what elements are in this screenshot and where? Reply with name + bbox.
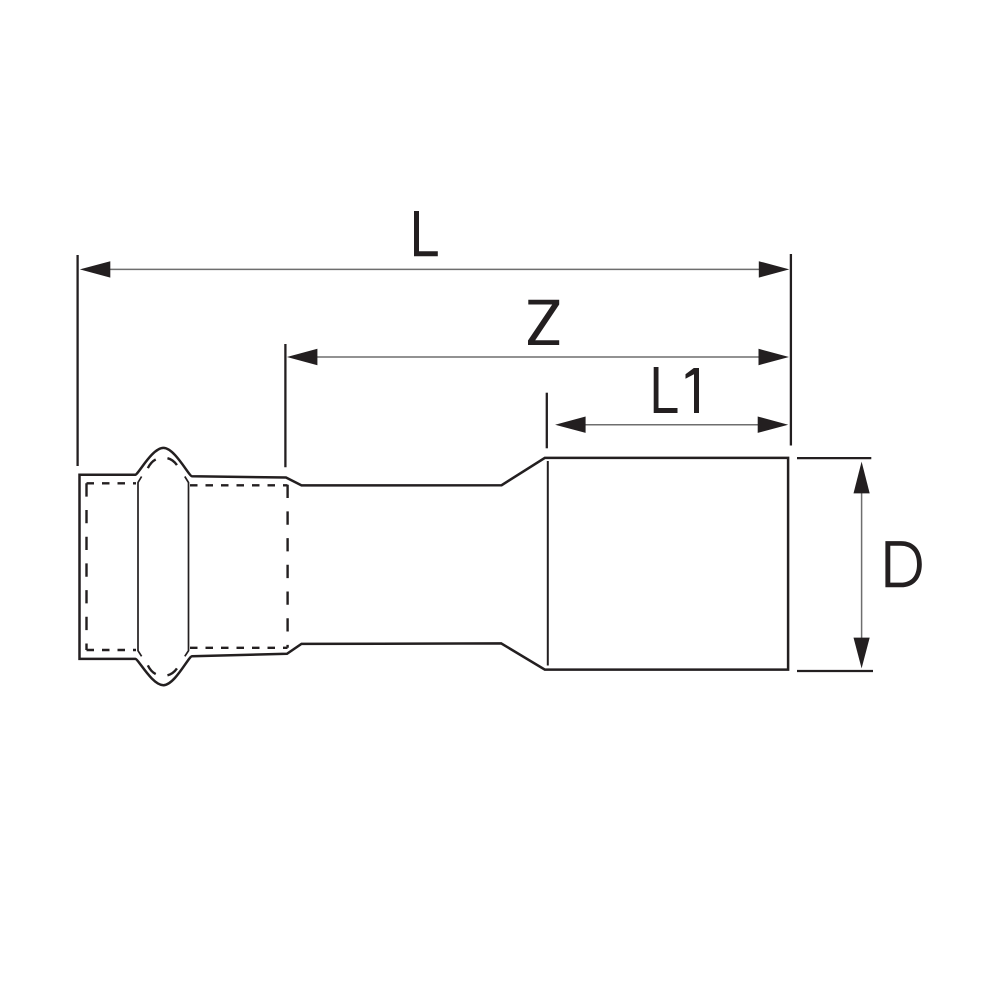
label L1 <box>654 367 678 413</box>
arrow Z left <box>287 349 318 365</box>
ext line Z left <box>284 344 286 467</box>
dashed bore left vertical <box>85 483 87 650</box>
label Z <box>528 300 559 345</box>
dashed insertion depth vertical <box>286 485 288 648</box>
arrow L left <box>80 261 111 277</box>
dim line L1 <box>580 424 762 426</box>
arrow D top <box>854 462 870 494</box>
dashed bore bottom-left <box>87 649 137 651</box>
dim line L <box>105 268 762 270</box>
ext line L1 left <box>546 393 548 449</box>
bead flank left <box>138 477 142 657</box>
arrow Z right <box>759 349 790 365</box>
dashed bore top-left <box>87 482 137 484</box>
arrow L right <box>759 261 790 277</box>
dimension lines <box>105 269 862 640</box>
dim line Z <box>312 356 762 358</box>
arrowheads <box>80 261 870 668</box>
dashed o-ring arc bottom <box>147 664 180 676</box>
dashed bore top-right <box>190 484 288 486</box>
label D <box>885 541 921 587</box>
fitting outer silhouette <box>80 448 789 685</box>
dashed o-ring arc top <box>147 458 180 470</box>
ext line D top <box>797 457 871 459</box>
bead flank right <box>185 477 189 657</box>
dashed bore lines <box>87 483 288 650</box>
tube stop line <box>547 461 549 666</box>
ext line D bottom <box>797 670 873 672</box>
ext line L left <box>76 255 78 466</box>
extension lines <box>78 254 873 671</box>
arrow L1 right <box>758 417 789 433</box>
dim line D <box>861 490 863 640</box>
arrow L1 left <box>555 417 586 433</box>
label L <box>414 211 438 256</box>
ext line right common <box>790 254 792 446</box>
arrow D bottom <box>854 638 870 669</box>
dashed bore bottom-right <box>190 647 288 649</box>
